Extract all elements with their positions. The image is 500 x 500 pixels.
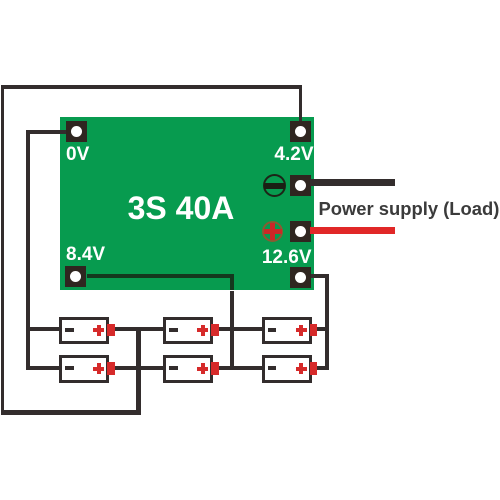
- terminal symbol plus cross horizontal: [264, 229, 282, 234]
- wire: 8.4V vertical on board part: [230, 274, 234, 290]
- wire: row1 B3+ to B5-: [216, 327, 263, 331]
- wire: row2 B6+ to 12.6V link: [315, 366, 329, 370]
- wire: row2 B4+ to B6-: [216, 366, 263, 370]
- pad 4.2V: [290, 121, 311, 142]
- wire: 0V pad horizontal to left: [26, 130, 67, 133]
- pad 8.4V: [65, 266, 86, 287]
- battery B2: [59, 355, 109, 383]
- label 0V: [66, 145, 89, 164]
- wire: 8.4V pad horizontal across board (dark green): [87, 274, 235, 278]
- wire: bottom rail (4.2V net): [1, 410, 141, 415]
- wire: 8.4V vertical down to col2+/col3- link: [230, 291, 234, 371]
- battery B1: [59, 317, 109, 345]
- label 3S 40A: [111, 192, 251, 224]
- wire: row1 B1+ to B3-: [112, 327, 164, 331]
- terminal symbol plus (circle): [262, 221, 283, 242]
- wire: link column1+/column2- vertical (4.2V net): [136, 327, 141, 415]
- wire: top rail from 4.2V to left side: [1, 85, 302, 88]
- wire: 12.6V vertical down to battery positives: [325, 274, 329, 370]
- label 12.6V: [252, 248, 312, 267]
- wire: left outer vertical (4.2V net): [1, 85, 4, 415]
- wire: 0V vertical down to battery negatives: [26, 130, 29, 370]
- battery B4: [163, 355, 213, 383]
- wire: 4.2V pad up to top rail: [299, 87, 302, 122]
- pad 12.6V: [290, 267, 311, 288]
- battery B6: [262, 355, 312, 383]
- wire: load red wire: [310, 227, 395, 234]
- wire: 12.6V pad horizontal to right: [311, 274, 329, 278]
- battery B3: [163, 317, 213, 345]
- label 8.4V: [66, 245, 105, 264]
- wire: row1 B5+ to 12.6V link: [315, 327, 329, 331]
- pad P- (load minus): [290, 175, 311, 196]
- label 4.2V: [254, 145, 314, 164]
- wire: load black wire: [310, 179, 395, 186]
- label Power supply (Load): [319, 200, 500, 218]
- terminal symbol minus bar: [264, 183, 285, 189]
- BMS board U1 "3S 40A": [60, 117, 314, 290]
- wire: 0V stub to battery B1 negative: [26, 327, 61, 331]
- pad P+ (load plus): [290, 221, 311, 242]
- wire: 0V stub to battery B2 negative: [26, 366, 61, 370]
- pad 0V: [66, 121, 87, 142]
- battery B5: [262, 317, 312, 345]
- wire: row2 B2+ to B4-: [112, 366, 164, 370]
- terminal symbol plus cross vertical: [270, 223, 275, 241]
- terminal symbol minus (circle): [263, 174, 286, 197]
